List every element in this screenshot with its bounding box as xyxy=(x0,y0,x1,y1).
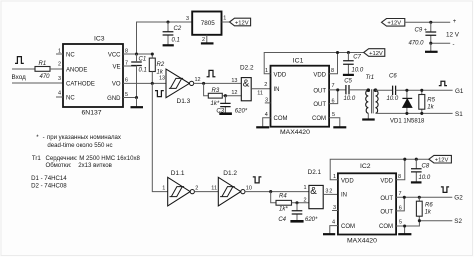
pin 4 IC1 ground xyxy=(263,118,271,127)
svg-text:C9: C9 xyxy=(415,27,423,33)
node rail junction p8 xyxy=(336,51,339,54)
svg-text:12: 12 xyxy=(231,90,237,96)
pin 5 wire GND xyxy=(123,97,137,99)
node C4 junction xyxy=(295,201,298,204)
svg-text:7: 7 xyxy=(332,83,335,89)
node D1.3 out junction xyxy=(202,82,205,85)
svg-text:1: 1 xyxy=(303,185,306,191)
pin 7 wire VE xyxy=(123,65,137,67)
svg-text:1k*: 1k* xyxy=(211,101,220,107)
svg-text:R5: R5 xyxy=(427,97,435,103)
resistor R6 xyxy=(418,197,420,220)
pin 7 IC1 wire xyxy=(329,89,346,91)
capacitor C8 xyxy=(415,159,417,182)
svg-text:6N137: 6N137 xyxy=(82,110,102,117)
svg-text:D2 - 74HC08: D2 - 74HC08 xyxy=(31,182,67,189)
pin 6 wire VO xyxy=(123,82,166,84)
svg-text:1k: 1k xyxy=(427,105,434,111)
svg-text:D2.1: D2.1 xyxy=(308,169,322,176)
node rail junction C8 xyxy=(415,158,418,161)
wire 7805 out xyxy=(222,21,230,23)
svg-text:3: 3 xyxy=(333,205,336,211)
wire input anode xyxy=(12,68,35,70)
svg-text:1k: 1k xyxy=(425,210,432,216)
capacitor C2 xyxy=(166,20,169,23)
capacitor C9 xyxy=(430,22,432,43)
svg-text:2: 2 xyxy=(58,62,61,68)
svg-text:-: - xyxy=(43,134,45,141)
svg-text:7: 7 xyxy=(125,61,128,67)
AND gate D2.2 xyxy=(241,78,251,101)
svg-text:C6: C6 xyxy=(389,74,397,80)
capacitor C3 xyxy=(224,96,226,114)
svg-text:0.1: 0.1 xyxy=(172,38,180,44)
svg-text:2: 2 xyxy=(264,82,267,88)
svg-text:+: + xyxy=(453,19,457,25)
svg-text:620*: 620* xyxy=(305,217,318,223)
svg-text:G1: G1 xyxy=(455,88,464,95)
svg-text:7805: 7805 xyxy=(201,20,216,27)
pin 4 stub IC3 xyxy=(56,96,63,98)
node VCC junction xyxy=(135,52,138,55)
svg-text:GND: GND xyxy=(107,96,121,102)
svg-text:2: 2 xyxy=(303,198,306,204)
node out join xyxy=(336,88,339,91)
pin 6 IC1 wire xyxy=(329,90,338,104)
svg-text:D2.2: D2.2 xyxy=(240,65,254,72)
svg-text:R2: R2 xyxy=(157,62,165,68)
pulse up at G1 xyxy=(439,81,447,85)
svg-text:NC: NC xyxy=(66,53,75,59)
svg-text:10.0: 10.0 xyxy=(344,96,356,102)
node rail junction C7 xyxy=(347,51,350,54)
svg-text:Tr1: Tr1 xyxy=(32,155,42,162)
driver IC2 MAX4420 xyxy=(338,173,396,234)
svg-text:VDD: VDD xyxy=(380,178,393,184)
node D1.2 out junction xyxy=(269,190,272,193)
capacitor C7 xyxy=(347,53,349,75)
power flag +12V above IC1 xyxy=(364,49,385,57)
svg-text:6: 6 xyxy=(399,206,402,212)
svg-text:CATHODE: CATHODE xyxy=(66,81,95,87)
svg-text:2: 2 xyxy=(195,185,198,191)
svg-text:Tr1: Tr1 xyxy=(366,75,375,81)
pin 5 IC2 wire to S2 xyxy=(396,221,419,226)
pin 1 IC1 wire xyxy=(264,53,364,74)
svg-text:MAX4420: MAX4420 xyxy=(347,238,377,245)
inverter D1.3 xyxy=(166,69,189,98)
capacitor C5 xyxy=(346,85,349,94)
wire D2.1 out to IC2 IN xyxy=(323,193,338,195)
wire D1.2 out xyxy=(245,191,309,193)
pin 3 stub IC1 xyxy=(265,102,271,104)
svg-text:6: 6 xyxy=(332,98,335,104)
wire S1 rail xyxy=(376,112,453,114)
wire Tr1 secondary top to C6 xyxy=(376,89,393,91)
ground pin 5 IC2 xyxy=(404,226,406,234)
ground Tr1 primary xyxy=(367,113,369,119)
svg-text:NC: NC xyxy=(66,96,75,102)
pin 7 IC2 wire G2 rail xyxy=(396,196,452,198)
resistor R4 xyxy=(276,200,292,205)
svg-text:VDD: VDD xyxy=(274,72,287,78)
svg-text:VCC: VCC xyxy=(108,53,121,59)
svg-text:7: 7 xyxy=(399,191,402,197)
svg-text:C4: C4 xyxy=(278,217,286,223)
svg-text:470.0: 470.0 xyxy=(409,40,425,46)
wire R3 to D2.2 xyxy=(222,95,241,97)
svg-text:3: 3 xyxy=(186,16,189,22)
svg-text:1k*: 1k* xyxy=(279,207,288,213)
svg-text:ANODE: ANODE xyxy=(66,67,87,73)
wire +5V riser xyxy=(137,22,193,54)
svg-text:OUT: OUT xyxy=(313,102,326,108)
svg-text:C8: C8 xyxy=(422,163,430,169)
AND gate D2.1 xyxy=(309,185,323,208)
wire input cathode to pin3 xyxy=(12,82,63,84)
svg-text:-: - xyxy=(453,42,455,48)
input pulse symbol xyxy=(15,57,24,64)
svg-text:13: 13 xyxy=(231,78,237,84)
inverter D1.1 xyxy=(168,177,191,206)
svg-text:+12V: +12V xyxy=(387,21,401,27)
driver IC1 MAX4420 xyxy=(271,66,330,127)
svg-text:R3: R3 xyxy=(212,88,220,94)
svg-text:+: + xyxy=(424,27,427,33)
wire long riser VO to D1.1 xyxy=(152,83,167,191)
svg-text:1: 1 xyxy=(223,16,226,22)
resistor R1 xyxy=(35,67,50,72)
pin 3 stub IC2 xyxy=(332,210,338,212)
wire C5 to Tr1 xyxy=(349,89,368,91)
node R2 top junction xyxy=(151,52,154,55)
svg-text:+12V: +12V xyxy=(435,158,449,164)
svg-text:8: 8 xyxy=(125,49,128,55)
svg-text:2: 2 xyxy=(329,189,332,195)
svg-text:IC3: IC3 xyxy=(94,36,105,43)
node out join IC2 xyxy=(403,196,406,199)
pin 6 IC2 wire xyxy=(396,197,404,211)
svg-text:COM: COM xyxy=(312,116,326,122)
ground C4 xyxy=(290,220,303,223)
svg-text:IC2: IC2 xyxy=(360,163,371,170)
node VO junction xyxy=(151,82,154,85)
svg-text:C1: C1 xyxy=(139,57,147,63)
svg-text:G2: G2 xyxy=(454,195,463,202)
pin 8 IC2 wire xyxy=(396,159,405,180)
svg-text:dead-time около 550 нс: dead-time около 550 нс xyxy=(47,142,112,149)
wire R3 branch xyxy=(204,83,209,95)
node C9 top junction xyxy=(429,21,432,24)
svg-text:S1: S1 xyxy=(455,111,463,118)
svg-text:12 V: 12 V xyxy=(446,31,460,38)
svg-text:1: 1 xyxy=(58,49,61,55)
svg-text:+12V: +12V xyxy=(235,20,249,26)
resistor R3 xyxy=(208,93,222,98)
svg-text:10: 10 xyxy=(246,185,252,191)
wire battery minus xyxy=(431,42,450,44)
svg-text:6: 6 xyxy=(125,78,128,84)
svg-text:IN: IN xyxy=(274,87,280,93)
diode VD1 1N5818 xyxy=(406,90,408,113)
svg-text:1: 1 xyxy=(265,68,268,74)
svg-text:8: 8 xyxy=(331,68,334,74)
svg-text:VO: VO xyxy=(112,81,121,87)
node R6 top junction xyxy=(418,196,421,199)
node GND junction xyxy=(135,96,138,99)
pulse down at G2 xyxy=(441,187,449,193)
svg-text:10.0: 10.0 xyxy=(352,68,364,74)
svg-text:D1.2: D1.2 xyxy=(223,170,237,177)
svg-text:D1.1: D1.1 xyxy=(171,170,185,177)
svg-text:5: 5 xyxy=(399,219,402,225)
svg-text:OUT: OUT xyxy=(380,209,393,215)
svg-text:1: 1 xyxy=(333,174,336,180)
svg-text:0.1: 0.1 xyxy=(139,67,147,73)
svg-text:2х13 витков: 2х13 витков xyxy=(78,162,112,169)
svg-text:IN: IN xyxy=(341,192,347,198)
svg-text:13: 13 xyxy=(159,76,165,82)
ground C9 xyxy=(430,43,432,51)
svg-text:12: 12 xyxy=(195,77,201,83)
capacitor C4 xyxy=(296,203,298,221)
svg-text:OUT: OUT xyxy=(313,88,326,94)
svg-text:IC1: IC1 xyxy=(293,57,304,64)
pin 1 stub IC3 xyxy=(56,53,63,55)
svg-text:R6: R6 xyxy=(425,203,433,209)
svg-text:3: 3 xyxy=(58,76,61,82)
pin 1 IC2 wire xyxy=(330,159,429,180)
wire flag to battery xyxy=(405,21,450,23)
svg-text:4: 4 xyxy=(58,91,61,97)
svg-text:D1.3: D1.3 xyxy=(177,98,191,105)
svg-text:4: 4 xyxy=(265,112,268,118)
svg-text:*: * xyxy=(36,134,39,141)
svg-text:C5: C5 xyxy=(344,78,352,84)
svg-text:VD1 1N5818: VD1 1N5818 xyxy=(390,118,425,124)
svg-text:+12V: +12V xyxy=(369,51,383,57)
svg-text:2: 2 xyxy=(202,37,205,43)
pin 2 ground 7805 xyxy=(206,35,208,43)
svg-text:620*: 620* xyxy=(235,109,248,115)
svg-text:VDD: VDD xyxy=(313,72,326,78)
svg-text:1: 1 xyxy=(162,185,165,191)
ground C2 xyxy=(163,44,174,46)
svg-text:3: 3 xyxy=(325,189,328,195)
pin 8 wire VCC xyxy=(123,53,152,55)
svg-text:C2: C2 xyxy=(174,26,182,32)
svg-text:при указанных номиналах: при указанных номиналах xyxy=(47,134,121,141)
ground below IC3 xyxy=(136,98,138,107)
svg-text:11: 11 xyxy=(257,91,263,97)
ground C7 xyxy=(343,74,354,76)
wire D2.2 out to IC1 IN xyxy=(251,88,270,90)
svg-text:Вход: Вход xyxy=(12,74,27,81)
svg-text:470: 470 xyxy=(40,74,51,80)
svg-text:&: & xyxy=(243,79,250,90)
pulse up at D1.3 output xyxy=(207,70,216,76)
svg-text:OUT: OUT xyxy=(380,196,393,202)
svg-text:5: 5 xyxy=(125,92,128,98)
power flag +12V top right xyxy=(382,19,405,27)
svg-text:Сердечник: М 2500 НМС 16х10х8: Сердечник: М 2500 НМС 16х10х8 xyxy=(46,155,141,162)
pulse down at D1.3 input xyxy=(155,91,164,97)
svg-text:5: 5 xyxy=(332,112,335,118)
node C3 junction xyxy=(224,94,227,97)
svg-text:R1: R1 xyxy=(39,61,47,67)
pin 4 IC2 ground xyxy=(330,226,338,234)
power flag +12V at IC2 xyxy=(429,155,452,163)
svg-text:S2: S2 xyxy=(454,218,462,225)
wire R4 branch xyxy=(271,192,276,203)
svg-text:10.0: 10.0 xyxy=(387,96,399,102)
svg-text:VDD: VDD xyxy=(341,178,354,184)
pin 5 IC1 ground xyxy=(329,118,340,127)
pulse down at D1.2 out xyxy=(253,177,262,183)
svg-text:&: & xyxy=(310,186,317,197)
svg-text:COM: COM xyxy=(274,116,288,122)
svg-text:R4: R4 xyxy=(279,193,287,199)
svg-text:3: 3 xyxy=(265,97,268,103)
pin 8 IC1 wire xyxy=(329,53,337,74)
capacitor C1 xyxy=(131,62,142,66)
wire S2 rail xyxy=(419,220,452,222)
svg-text:11: 11 xyxy=(211,185,217,191)
ground C3 xyxy=(219,112,232,115)
svg-text:COM: COM xyxy=(341,224,355,230)
wire R1 to pin2 xyxy=(50,68,63,70)
wire D1.3 out xyxy=(194,82,242,84)
node rail junction p8 IC2 xyxy=(403,158,406,161)
resistor R2 xyxy=(149,58,155,71)
wire R4 to D2.1 xyxy=(292,202,309,204)
svg-text:MAX4420: MAX4420 xyxy=(280,129,310,136)
capacitor C6 xyxy=(393,86,396,95)
wire G1 rail xyxy=(396,89,453,91)
optocoupler IC3 6N137 xyxy=(63,44,123,107)
svg-text:10.0: 10.0 xyxy=(419,175,431,181)
svg-text:COM: COM xyxy=(379,224,393,230)
resistor R5 xyxy=(421,90,423,113)
svg-text:4: 4 xyxy=(332,220,335,226)
regulator 7805 xyxy=(192,12,221,35)
wire D1.1 to D1.2 xyxy=(194,191,218,193)
svg-text:C7: C7 xyxy=(353,54,361,60)
power flag +12V at 7805 xyxy=(230,18,251,26)
svg-text:D1 - 74HC14: D1 - 74HC14 xyxy=(31,175,67,182)
svg-text:Обмотки:: Обмотки: xyxy=(46,162,72,169)
svg-text:VE: VE xyxy=(112,65,120,71)
svg-text:8: 8 xyxy=(398,174,401,180)
ground C8 xyxy=(411,181,422,183)
inverter D1.2 xyxy=(218,177,241,206)
